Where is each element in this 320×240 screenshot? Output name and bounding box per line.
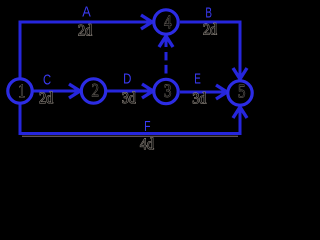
- node 3: [154, 79, 178, 103]
- svg-text:2d: 2d: [78, 23, 92, 40]
- dummy wire (dashed) node3 up to node4: [165, 36, 168, 74]
- svg-text:3d: 3d: [192, 91, 206, 108]
- wire E: node3 to node5: [180, 91, 226, 94]
- wire F highlight edge: [22, 135, 238, 137]
- node 2: [81, 79, 105, 103]
- svg-text:B: B: [205, 4, 212, 21]
- arrowhead B into node5: [233, 68, 247, 79]
- svg-text:2d: 2d: [203, 22, 217, 39]
- wire C: node1 to node2: [33, 90, 79, 93]
- svg-text:2: 2: [91, 80, 98, 101]
- svg-text:3: 3: [164, 80, 171, 101]
- svg-text:2d: 2d: [39, 90, 53, 107]
- arrowhead F into node5: [233, 107, 247, 118]
- svg-text:D: D: [123, 70, 131, 87]
- svg-text:A: A: [82, 3, 91, 20]
- svg-text:F: F: [144, 117, 150, 134]
- wire F: node1 down, right along bottom, up to node5: [20, 103, 240, 134]
- wire D: node2 to node3: [107, 90, 152, 93]
- arrowhead dummy into node4: [159, 36, 173, 47]
- svg-text:E: E: [194, 71, 201, 88]
- svg-text:1: 1: [18, 80, 25, 101]
- svg-text:C: C: [43, 71, 51, 88]
- svg-text:4d: 4d: [140, 136, 154, 153]
- wire B: node4 right then down to node5: [180, 22, 240, 79]
- arrowhead C into node2: [69, 84, 80, 98]
- svg-text:4: 4: [164, 11, 172, 32]
- svg-text:3d: 3d: [122, 90, 136, 107]
- node 4: [154, 10, 178, 34]
- svg-text:5: 5: [238, 81, 245, 102]
- node 5: [228, 81, 252, 105]
- wire A: node1 up then right to node4: [20, 22, 152, 79]
- arrowhead A into node4: [141, 15, 152, 29]
- arrowhead E into node5: [216, 85, 227, 99]
- node 1: [8, 79, 32, 103]
- arrowhead D into node3: [142, 84, 153, 98]
